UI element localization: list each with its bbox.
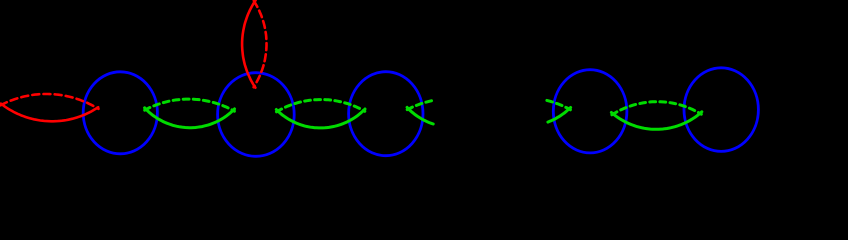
red curve R2 vertical loop through top of S2 (back arc, dashed)	[254, 1, 267, 87]
green linking circle G5 between S4 and S5 (back arc, dashed)	[612, 102, 701, 115]
red curve R2 vertical loop through top of S2 (front arc, solid)	[242, 0, 256, 87]
green linking circle G4 partial, left of S4 (cut off at gap) (back arc, dashed)	[547, 100, 571, 109]
green linking circle G1 between S1 and S2 (back arc, dashed)	[145, 99, 235, 111]
green linking circle G3 partial, right of S3 (cut off at gap) (front arc, solid)	[407, 107, 433, 124]
sphere S4 (blue circle, right chain)	[553, 70, 627, 153]
green linking circle G2 between S2 and S3 (front arc, solid)	[276, 109, 365, 128]
sphere S2 (blue circle, left chain)	[218, 73, 295, 157]
sphere S3 (blue circle, left chain)	[349, 72, 423, 156]
green linking circle G3 partial, right of S3 (cut off at gap) (back arc, dashed)	[407, 101, 432, 110]
green linking circle G5 between S4 and S5 (front arc, solid)	[611, 112, 701, 130]
sphere S5 (blue circle, right chain)	[684, 68, 758, 152]
sphere S1 (blue circle, left chain)	[83, 72, 157, 154]
green linking circle G2 between S2 and S3 (back arc, dashed)	[277, 100, 365, 112]
green linking circle G1 between S1 and S2 (front arc, solid)	[145, 108, 235, 128]
red curve R1 horizontal loop through S1 (front arc, solid)	[1, 104, 98, 122]
red curve R1 horizontal loop through S1 (back arc, dashed)	[1, 94, 99, 109]
green linking circle G4 partial, left of S4 (cut off at gap) (front arc, solid)	[548, 108, 571, 123]
